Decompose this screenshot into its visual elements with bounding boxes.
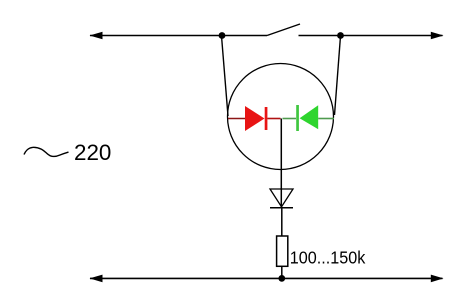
top bus wire left segment bbox=[90, 32, 268, 40]
wire from diode to resistor bbox=[281, 208, 283, 236]
diode VD bbox=[270, 189, 293, 208]
wire from resistor to bottom bus bbox=[281, 266, 283, 278]
wire center tap from LED to diode bbox=[280, 119, 282, 190]
svg-text:220: 220 bbox=[74, 140, 111, 165]
wire from top-left node to LED bbox=[222, 36, 229, 116]
bottom bus wire bbox=[90, 275, 444, 283]
wire from top-right node to LED bbox=[335, 36, 341, 115]
green LED anode lead wire bbox=[318, 118, 334, 120]
switch bbox=[267, 24, 300, 36]
svg-text:100...150k: 100...150k bbox=[290, 247, 366, 267]
red LED cathode lead wire bbox=[267, 118, 280, 120]
green LED cathode lead wire bbox=[283, 118, 297, 120]
value label 100...150k bbox=[290, 247, 366, 267]
bicolor LED outline circle bbox=[228, 64, 334, 170]
top bus wire right segment bbox=[299, 32, 444, 40]
resistor R bbox=[277, 236, 288, 266]
red LED diode bbox=[245, 106, 267, 131]
green LED diode bbox=[296, 105, 318, 131]
red LED anode lead wire bbox=[228, 118, 246, 120]
label 220 bbox=[74, 140, 111, 165]
node top-right junction bbox=[337, 32, 344, 39]
node top-left junction bbox=[219, 32, 226, 39]
AC sine symbol bbox=[24, 147, 69, 156]
node bottom junction bbox=[278, 275, 285, 282]
